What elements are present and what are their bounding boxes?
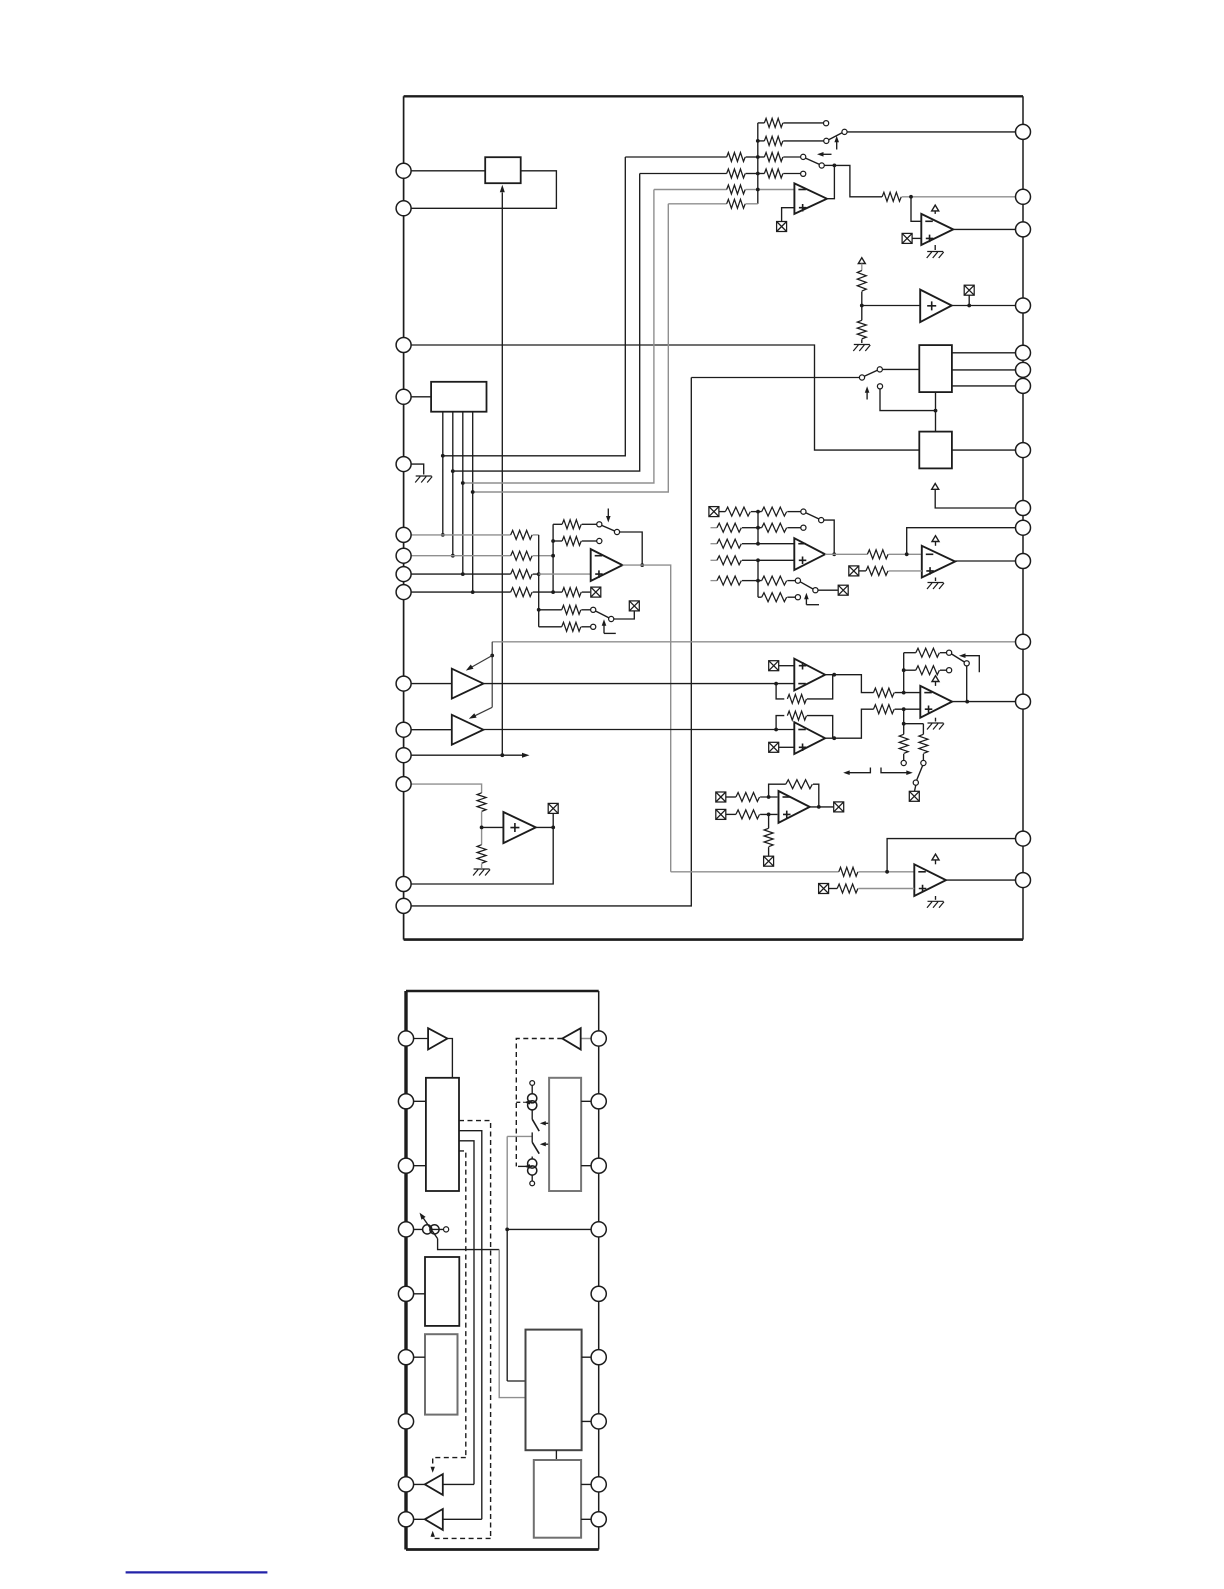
dashed bus 1 from B4 [459, 1121, 491, 1539]
wire X10 to U8a + input [779, 665, 795, 667]
resistor R31 row6 [758, 593, 795, 602]
junction U6 output [832, 552, 836, 556]
wire block T output loop to pin2 [404, 171, 557, 209]
resistor R18 (feedback b) [553, 537, 597, 546]
pin R9 [1016, 501, 1031, 516]
CS3 adjust arrow [420, 1213, 438, 1239]
buffer T4 (reverse) [562, 1028, 580, 1049]
mute cell X8 [838, 585, 848, 595]
resistor R43 [726, 810, 778, 819]
pin bL7 [398, 1414, 413, 1429]
switch SW7 actuator arrow [804, 593, 819, 605]
branch to CS2 with arrow [518, 1164, 532, 1168]
mute cell X16 [764, 856, 774, 866]
mute cell X7 [709, 507, 719, 517]
junction node F [833, 164, 837, 168]
wire SW9 to mute cell X12 [915, 785, 916, 791]
wire B1 out3 to pin Q7 [952, 385, 1023, 387]
resistor R1 (row1) [758, 118, 824, 127]
mute cell X14 [716, 809, 726, 819]
wire SW7 common to mute cell X8 [818, 589, 838, 591]
switch SW8 lever [951, 654, 964, 662]
switch SW3 lever [864, 370, 877, 376]
block B5 (right register) [549, 1078, 581, 1191]
ground at U5 divider [473, 869, 490, 876]
pin L3 [396, 338, 411, 353]
resistor R37 [873, 705, 920, 714]
control arrow right [881, 768, 913, 776]
mute cell X4 [591, 587, 601, 597]
junction U5 input [480, 826, 484, 830]
ground at U9 [927, 718, 944, 730]
wire divider to U3 [862, 305, 920, 307]
variable current source CS3 [423, 1225, 449, 1234]
resistor R41 (branch B) [919, 724, 928, 761]
wire pin12 with direction arrow [404, 753, 530, 758]
switch SW5 contacts [591, 607, 614, 629]
wire row4 to U6 + input [758, 559, 795, 561]
resistor R35 [873, 688, 920, 697]
wire U11 output to pin Q15 [946, 879, 1023, 881]
op-amp U7 [922, 546, 955, 578]
switch SW5 lever [596, 611, 610, 618]
switch SW2 lever [806, 158, 820, 164]
pin L1 [396, 163, 411, 178]
switch SW9 pole contact [913, 780, 918, 785]
buffer T6 (reverse) [425, 1509, 443, 1530]
resistor R39 (fb row B) [904, 666, 947, 675]
wire pin b4R [507, 1228, 599, 1230]
switch SW11 lever [532, 1142, 539, 1154]
op-amp U5 [503, 812, 535, 843]
resistor R27 row3 [711, 539, 758, 548]
U6 non-inverting bus [757, 560, 759, 597]
wire pin15 riser x691 [404, 378, 692, 906]
switch SW11 actuator arrow [540, 1142, 549, 1146]
resistor R46 (U11 - series) [671, 867, 915, 876]
junction on control line [490, 654, 494, 658]
block B6b [425, 1334, 458, 1414]
resistor R19 (R8 gain row) [539, 605, 591, 614]
wire U4 + input [539, 573, 591, 575]
ground at U7 [927, 578, 944, 590]
op-amp U10 [779, 791, 810, 823]
pin L4 [396, 389, 411, 404]
junction pin12/control riser [500, 753, 504, 757]
IC block 2 outer frame [406, 991, 599, 1550]
pin R3 [1016, 222, 1031, 237]
switch SW1 throw contacts [824, 121, 848, 144]
U9 feedback riser [903, 653, 905, 693]
pin R8 [1016, 443, 1031, 458]
wire B3 out1 down [442, 412, 444, 535]
wire U4 output long riser to U11 [623, 565, 671, 872]
pin R2 [1016, 189, 1031, 204]
contact B [921, 760, 926, 765]
mute cell X3 [964, 285, 974, 305]
mute cell X12 [909, 791, 919, 801]
junction U9 output [965, 700, 969, 704]
wire SW3 common from x691 riser [691, 377, 859, 379]
wire tee3 to top resistor row5 [463, 190, 654, 484]
switch SW1 lever [829, 133, 842, 140]
wire B7 to B8 link [555, 1450, 557, 1460]
switch SW1 actuator arrow [834, 136, 839, 150]
wire SW5 common to mute cell X5 [614, 611, 635, 619]
wire SW3 throw1 to B1 [883, 368, 920, 370]
pin bR7 [591, 1414, 606, 1429]
pin bL3 [398, 1158, 413, 1173]
wire U8a output to R35 [825, 675, 873, 693]
pin R15 [1016, 873, 1031, 888]
resistor R23 [719, 507, 758, 516]
wire pin10 to buffer T1 [404, 683, 452, 685]
junction dots on summing bus [756, 139, 760, 191]
pin bR1 [591, 1031, 606, 1046]
wire B1 out2 to pin Q6 [952, 369, 1023, 371]
junction U8a output [832, 673, 836, 677]
pin bL5 [398, 1286, 413, 1301]
switch SW9 lever [917, 766, 923, 780]
IC block 1 outer frame [404, 96, 1023, 939]
wire SW3 throw2 to B1-B2 link [880, 389, 936, 411]
resistor R33 (U7 +) [859, 566, 922, 575]
wire B1 out1 to pin Q5 [952, 352, 1023, 354]
junction U3 output [967, 304, 971, 308]
wire B3 out2 down [452, 412, 454, 556]
block B1 (output selector) [919, 345, 952, 392]
mute cell X5 [629, 601, 639, 611]
resistor R6 (row4 right) [758, 169, 801, 178]
pin R7 [1016, 378, 1031, 393]
switch SW7 contacts (gain) [795, 578, 818, 600]
power arrow at U7 [932, 536, 939, 546]
block B3 (control decoder box) [431, 382, 486, 412]
wire pin11 to buffer T2 [404, 729, 452, 731]
mute cell X6 [548, 803, 558, 827]
resistor R11 (divider bottom) [857, 306, 866, 344]
resistor R38 (fb row A) [904, 648, 947, 657]
resistor R4 (row3 right) [758, 153, 801, 162]
pin L6 [396, 527, 411, 542]
pin R10 [1016, 520, 1031, 535]
junction U10 output [817, 805, 821, 809]
gain control line from pin Q12 [492, 641, 1023, 643]
pin bR9 [591, 1512, 606, 1527]
switch SW10 lever [532, 1119, 539, 1131]
junction U9 + node [902, 707, 906, 711]
switch SW8 contacts [947, 650, 970, 673]
wire U8b output to R37 [825, 709, 873, 738]
junction U9 fb [902, 668, 906, 672]
pin R5 [1016, 345, 1031, 360]
pin bL6 [398, 1350, 413, 1365]
resistor R40 (branch A) [899, 724, 908, 761]
dashed control from T4 [516, 1039, 562, 1167]
supply arrow to pin Q9 [932, 484, 1023, 509]
switch SW4 actuator arrow [606, 509, 611, 523]
wire pin b3L to B4 [406, 1165, 426, 1167]
resistor R17 (feedback a) [553, 520, 597, 529]
pin R13 [1016, 694, 1031, 709]
mute cell X17 [819, 884, 829, 894]
wire SW8 common to U9 output [966, 666, 968, 702]
pin bR3 [591, 1158, 606, 1173]
resistor R45 (U10 + to X16) [764, 814, 773, 855]
junction U4 output [640, 563, 644, 567]
pin L11 [396, 722, 411, 737]
wire U5 output to pin14 [404, 827, 554, 884]
control arrow into T2 [469, 707, 492, 719]
wire B3 out4 down [472, 412, 474, 592]
buffer T1 (VCA) [452, 669, 484, 699]
pin L8 [396, 567, 411, 582]
block B2 [919, 432, 952, 469]
wire T6 to pin b9L [406, 1518, 425, 1520]
ground at pin5 [415, 476, 432, 483]
pin R12 [1016, 634, 1031, 649]
buffer T3 [428, 1028, 447, 1049]
wire pin b2L to B4 [406, 1100, 426, 1102]
buffer T5 (reverse) [425, 1474, 443, 1495]
wire node G down to U2 inverting input [911, 197, 921, 222]
resistor R3 (row3 left) [625, 153, 758, 162]
wire pin b2R to B5 [581, 1100, 599, 1102]
resistor R47 (U11 +) [829, 884, 915, 893]
resistor R5 (row4 left) [640, 169, 758, 178]
pin L15 [396, 898, 411, 913]
switch SW7 lever [800, 582, 813, 589]
wire X11 to U8b + input [779, 746, 795, 748]
op-amp U2 [921, 214, 953, 245]
resistor R21 (U5 top) [477, 793, 486, 828]
U6 inverting bus [757, 512, 759, 544]
wire pin b5L to B6a [406, 1293, 425, 1295]
solid bus 2 from B4 [459, 1131, 482, 1520]
control arrow left [843, 768, 870, 776]
buffer T2 (VCA) [452, 715, 484, 745]
pin L10 [396, 676, 411, 691]
op-amp U8a [794, 659, 825, 691]
resistor R28 row4 [711, 556, 758, 565]
mute cell X1 [777, 222, 787, 232]
wire X2 to U2 + input [912, 237, 921, 239]
wire pin Q10 to U7 - node [907, 528, 1023, 555]
junction U8b - input [774, 728, 778, 732]
resistor R16 to mute cell X4 [553, 588, 590, 597]
pin R6 [1016, 362, 1031, 377]
wire T2 output to U8b [483, 729, 794, 731]
power arrow at U9 [932, 676, 939, 686]
U4 non-inverting bus [538, 535, 540, 627]
power arrow at divider [858, 258, 865, 264]
pin L12 [396, 748, 411, 763]
block B7 (DAC) [526, 1330, 582, 1451]
junction dots U4 buses [537, 539, 555, 612]
ground at U11 [927, 896, 944, 908]
wire pin8 with resistor R14 [404, 570, 539, 579]
wire pin13 to divider [404, 784, 482, 793]
switch SW2 actuator arrow [817, 152, 832, 157]
block T (top small box) [485, 157, 521, 183]
resistor R29 row5 [711, 576, 758, 585]
op-amp U3 (reference buffer) [920, 290, 952, 323]
wire pin6 with resistor R12 [404, 530, 539, 539]
wire T3 output into B4 [447, 1039, 452, 1078]
power arrow at U11 [932, 854, 939, 864]
U10 feedback resistor R44 [769, 780, 819, 807]
power arrow at U2 [932, 205, 939, 214]
U8a feedback resistor R34 [776, 675, 833, 704]
wire U11 - node to pin Q14 [887, 839, 1023, 872]
pin L14 [396, 877, 411, 892]
resistor R22 (U5 bottom) [477, 827, 486, 868]
junction U9 - node [902, 691, 906, 695]
wire B1 to B2 link [935, 392, 937, 432]
wire pin b3R to B5 [581, 1165, 599, 1167]
wire B2 output to pin Q8 [952, 449, 1023, 451]
wire tee4 to top resistor row6 [473, 204, 669, 492]
mute cell X10 [769, 661, 779, 671]
resistor R9 (U1 output series) [882, 192, 901, 201]
wire divider to U5 [482, 826, 504, 828]
pin bR2 [591, 1094, 606, 1109]
pin R11 [1016, 554, 1031, 569]
wire tee1 to top resistor row3 [443, 157, 626, 456]
resistor R20 (R9 gain row) [539, 622, 591, 631]
switch SW6 lever [806, 513, 819, 519]
wire pin5 to ground [404, 464, 424, 474]
switch SW2 throw contacts [801, 154, 825, 176]
dashed control into T5 [431, 1458, 466, 1473]
pin bR8 [591, 1477, 606, 1492]
U8b feedback resistor R36 [776, 711, 833, 738]
resistor R24 [758, 507, 801, 516]
dashed bus 4 from B4 [459, 1151, 466, 1458]
junction U10 - input [767, 795, 771, 799]
resistor R30 row5 right [758, 576, 795, 585]
wire tee2 to top resistor row4 [453, 174, 640, 472]
resistor R7 (row5) [654, 185, 795, 194]
vertical bus of summing resistors [757, 123, 759, 204]
solid bus 3 from B4 [459, 1141, 474, 1485]
pin L5 [396, 457, 411, 472]
mute cell X13 [716, 792, 726, 802]
footer rule [126, 1571, 268, 1573]
junction U10 + input [767, 813, 771, 817]
wire pin b6L to B6b [406, 1356, 425, 1358]
switch SW5 actuator arrow [602, 619, 616, 633]
pin bL9 [398, 1512, 413, 1527]
wire pin b1R to buffer T4 [581, 1038, 599, 1040]
wire bus3 to buffer T5 [443, 1483, 474, 1485]
junction U7 - node [905, 552, 909, 556]
block B4 (left register) [426, 1078, 459, 1191]
op-amp U6 [794, 538, 825, 570]
dashed branch to CS1 with arrow [516, 1100, 532, 1104]
wire switch common down to pin b4R [507, 1136, 525, 1381]
junction U8a - input [774, 682, 778, 686]
wire U7 output to pin Q11 [955, 560, 1023, 562]
wire T5 to pin b8L [406, 1483, 425, 1485]
pin bR5 [591, 1286, 606, 1301]
wire pin b1L to buffer T3 [406, 1038, 428, 1040]
control line from pin12 up into block T with up arrow [500, 185, 505, 755]
pin bL8 [398, 1477, 413, 1492]
resistor R42 [726, 793, 778, 802]
resistor R26 row2 right [758, 523, 801, 532]
wire U2 output to pin Q3 [953, 228, 1023, 230]
ground at divider [853, 345, 870, 352]
junction U11 - node [885, 870, 889, 874]
switch SW10 actuator arrow [540, 1121, 549, 1125]
switch SW4 contacts [597, 522, 620, 544]
resistor R25 row2 [711, 523, 758, 532]
control arrow into T1 [466, 656, 492, 671]
switch SW3 contacts [859, 367, 882, 389]
switch SW3 actuator arrow [865, 386, 870, 399]
pin R14 [1016, 831, 1031, 846]
switch SW6 contacts (U6 feedback) [801, 509, 824, 530]
U4 inverting bus [552, 524, 554, 592]
pin L9 [396, 585, 411, 600]
wire U9 + node branches [904, 709, 924, 724]
control riser [491, 642, 493, 708]
mute cell X2 [902, 233, 912, 243]
junction [902, 722, 906, 726]
wire pin b4L to variable current source [406, 1228, 443, 1230]
pin L2 [396, 201, 411, 216]
resistor R8 (row6) [668, 199, 758, 208]
pin bL4 [398, 1222, 413, 1237]
pin L13 [396, 777, 411, 792]
wire B8 to pin b9R [581, 1518, 599, 1520]
wire R9 to node G and pin Q2 [902, 196, 1023, 198]
resistor R32 (U6-U7 series) [825, 550, 922, 559]
pin R1 [1016, 124, 1031, 139]
mute cell X15 [834, 802, 844, 812]
resistor R2 (row2) [758, 136, 824, 145]
wire U3 output to pin Q4 [952, 305, 1023, 307]
mute cell X11 [769, 742, 779, 752]
wire U1 + input to mute cell X1 [782, 208, 795, 222]
contact A [901, 760, 906, 765]
pin L7 [396, 548, 411, 563]
junction dots U6 buses [756, 510, 760, 583]
op-amp U1 [794, 183, 827, 214]
switch SW8 actuator arrow [959, 653, 979, 672]
wire SW1 common to pin Q1 [847, 131, 1023, 133]
current source CS1 [528, 1081, 537, 1120]
junction U8b output [832, 736, 836, 740]
wire CS3 to B7 gray input [438, 1239, 526, 1398]
wire node F to resistor R9 [834, 165, 882, 196]
block B6a [425, 1257, 459, 1326]
junction on B1-B2 link [934, 409, 938, 413]
pin bL1 [398, 1031, 413, 1046]
junction divider node [860, 304, 864, 308]
wire pin9 with resistor R15 [404, 588, 553, 597]
wire B7 to pin b6R [582, 1356, 599, 1358]
wire pin4 to block B3 [404, 396, 432, 398]
wire SW2 common to node F [824, 164, 834, 166]
wire T1 output to U8a [483, 683, 794, 685]
junction dots on B3 lines [441, 454, 475, 594]
wire bus2 to buffer T6 [443, 1518, 482, 1520]
wire pin3 to block B2 input [404, 345, 920, 450]
wire U1 output up to node F [827, 165, 835, 198]
pin bL2 [398, 1094, 413, 1109]
